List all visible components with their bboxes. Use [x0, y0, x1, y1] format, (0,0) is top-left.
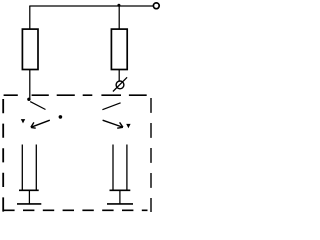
marker triangle right — [126, 124, 130, 128]
electrode comb right: stem — [119, 190, 121, 204]
electrode comb right: prongs — [113, 145, 127, 191]
terminal T1 (open circle) — [153, 3, 159, 9]
wire left drop — [29, 6, 31, 30]
wire right drop — [118, 6, 120, 30]
electrode comb left: stem — [28, 190, 30, 204]
electrode comb right: base bar — [107, 203, 133, 205]
node pivot dot (left switch pivot) — [27, 98, 30, 101]
arrow right (beam toward lower-right) — [103, 120, 123, 128]
wire below R2 — [118, 70, 120, 82]
node junction dot on top rail — [117, 4, 120, 7]
wire top rail — [29, 5, 153, 7]
electrode comb left: cross bar — [19, 189, 39, 191]
dashed enclosure top edge — [4, 94, 147, 96]
node center dot — [59, 115, 63, 119]
dashed enclosure left edge — [2, 99, 4, 212]
wire below R1 — [29, 70, 31, 99]
electrode comb left: base bar — [17, 203, 41, 205]
circuit schematic: two resistors fed from a supply rail, lamp symbol, dashed chamber with deflected beams and comb electrodes — [0, 0, 162, 217]
electrode comb left: prongs — [22, 145, 36, 191]
marker triangle left — [21, 119, 25, 123]
resistor R2 (right box) — [111, 29, 127, 69]
dashed enclosure right edge — [150, 98, 152, 212]
arrow left (beam toward lower-left) — [31, 120, 50, 128]
dashed enclosure bottom edge — [3, 209, 147, 211]
electrode comb right: cross bar — [110, 189, 131, 191]
lamp L (circle with slash) — [113, 77, 127, 91]
switch blade left — [30, 102, 45, 110]
switch blade right — [102, 103, 120, 110]
resistor R1 (left box) — [22, 29, 38, 69]
